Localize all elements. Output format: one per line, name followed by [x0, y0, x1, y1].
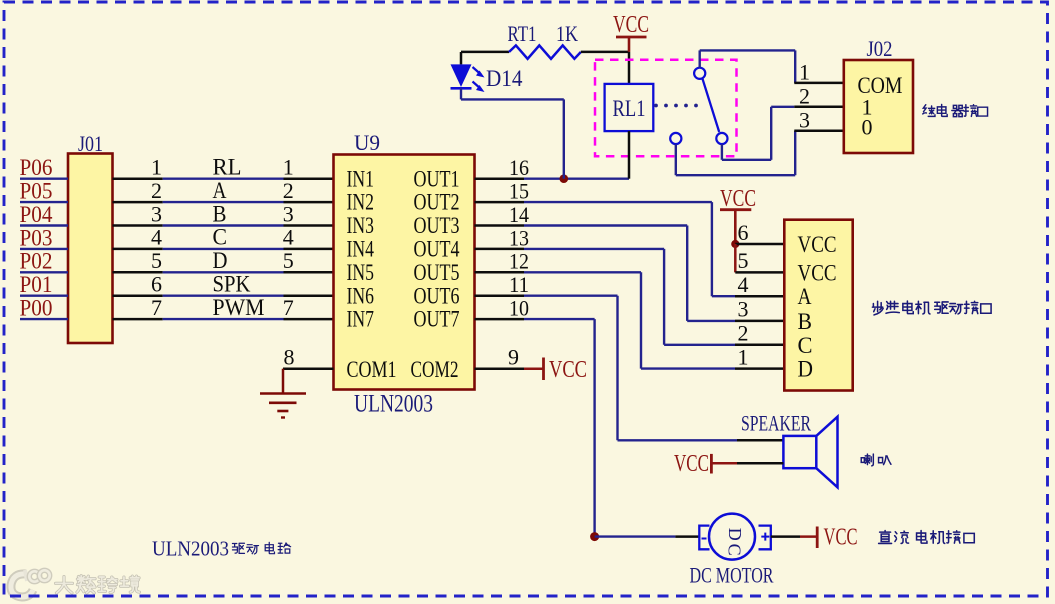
pin number 4 (stepper) [738, 272, 749, 297]
svg-text:RL1: RL1 [613, 96, 646, 121]
pin name IN3 [347, 213, 375, 238]
pin name OUT4 [414, 237, 460, 262]
pin name 0 [862, 115, 873, 140]
wire J01 pin 3 to U9 IN3 (net B) [113, 224, 334, 227]
pin number 10 [509, 296, 529, 321]
junction node stepper VCC [731, 240, 739, 248]
pin name OUT5 [414, 260, 460, 285]
svg-text:16: 16 [509, 155, 529, 180]
relay boundary box [595, 60, 737, 156]
svg-text:4: 4 [283, 225, 294, 250]
svg-text:0: 0 [862, 115, 873, 140]
svg-text:SPEAKER: SPEAKER [741, 411, 811, 436]
wire J01 pin 5 to U9 IN5 (net D) [113, 271, 334, 274]
svg-text:1K: 1K [556, 21, 578, 46]
wire P03 stub [20, 248, 68, 250]
pin number 7 (J01) [151, 295, 162, 320]
net label P03 [20, 225, 53, 250]
svg-text:7: 7 [283, 295, 294, 320]
svg-text:15: 15 [509, 179, 529, 204]
relay coil RL1 [605, 84, 654, 131]
pin number 4 (U9 input) [283, 225, 294, 250]
pin name VCC (stepper) [798, 232, 837, 257]
svg-text:IN7: IN7 [347, 307, 375, 332]
svg-text:RL: RL [213, 155, 242, 180]
pin name OUT3 [414, 213, 460, 238]
svg-text:10: 10 [509, 296, 529, 321]
svg-text:VCC: VCC [674, 451, 709, 477]
pin number 1 (J01) [151, 155, 162, 180]
svg-text:6: 6 [151, 272, 162, 297]
power VCC (stepper) [720, 186, 756, 244]
motor terminal - bracket [699, 526, 709, 550]
op-amp U9 (ULN2003 chip body) [334, 155, 475, 390]
net name RL [213, 155, 242, 180]
junction node motor wire [590, 532, 599, 541]
svg-text:P03: P03 [20, 225, 53, 250]
wire OUT3 to stepper pin 3 [475, 226, 785, 321]
svg-text:D: D [798, 357, 814, 382]
svg-text:OUT3: OUT3 [414, 213, 460, 238]
pin number 3 (J02) [799, 107, 810, 132]
pin name COM1 [347, 357, 397, 382]
pin number 9 [508, 345, 519, 370]
svg-text:1: 1 [283, 155, 294, 180]
svg-text:DC MOTOR: DC MOTOR [690, 563, 774, 588]
svg-text:VCC: VCC [824, 525, 858, 551]
pin name IN2 [347, 190, 375, 215]
power VCC (relay) [613, 12, 649, 52]
wire switch common to J02 pin 1 [700, 50, 844, 83]
junction node OUT1/D14 [560, 174, 569, 183]
svg-text:VCC: VCC [613, 12, 649, 38]
net name D [213, 248, 228, 273]
svg-text:2: 2 [151, 178, 162, 203]
svg-text:PWM: PWM [213, 295, 265, 320]
wire VCC to speaker [711, 462, 783, 465]
pin number 3 (stepper) [738, 297, 749, 322]
svg-text:IN1: IN1 [347, 166, 375, 191]
svg-text:VCC: VCC [798, 232, 837, 257]
wire P02 stub [20, 271, 68, 273]
svg-text:OUT5: OUT5 [414, 260, 460, 285]
svg-text:J02: J02 [867, 36, 893, 61]
wire RT1 to VCC node [581, 51, 629, 54]
net label P02 [20, 249, 53, 274]
switch contact common [694, 68, 705, 79]
wire motor + to VCC [771, 535, 817, 538]
pin name IN5 [347, 260, 375, 285]
net label P05 [20, 179, 53, 204]
svg-text:2: 2 [738, 321, 749, 346]
svg-text:P02: P02 [20, 249, 53, 274]
svg-text:OUT7: OUT7 [414, 307, 460, 332]
pin number 2 (J01) [151, 178, 162, 203]
connector stepper driver [784, 220, 852, 391]
wire VCC to stepper pin 6 [735, 243, 784, 246]
pin name 1 [862, 94, 873, 119]
svg-text:ULN2003: ULN2003 [354, 391, 433, 418]
svg-text:U9: U9 [354, 130, 380, 155]
ground [260, 369, 306, 418]
pin number 2 (U9 input) [283, 178, 294, 203]
svg-text:11: 11 [509, 272, 529, 297]
svg-text:13: 13 [509, 225, 529, 250]
pin number 14 [509, 202, 529, 227]
switch contact NO [716, 133, 727, 144]
net label P06 [20, 155, 53, 180]
svg-text:OUT6: OUT6 [414, 283, 460, 308]
wire OUT2 to stepper pin 4 [475, 202, 785, 296]
svg-text:D: D [213, 248, 228, 273]
pin number 3 (U9 input) [283, 201, 294, 226]
svg-text:B: B [798, 309, 813, 334]
wire OUT6 to speaker [475, 296, 784, 441]
net label P04 [20, 202, 53, 227]
svg-text:5: 5 [283, 248, 294, 273]
pin name COM [858, 73, 903, 98]
label DC motor interface (Chinese) [879, 530, 975, 543]
svg-text:7: 7 [151, 295, 162, 320]
wire D14 anode to RT1 [461, 51, 509, 54]
pin number 5 (U9 input) [283, 248, 294, 273]
wire switch NC to J02 pin 3 [676, 131, 844, 176]
pin name COM2 [411, 357, 459, 382]
pin name B (stepper) [798, 309, 813, 334]
speaker symbol [783, 417, 837, 488]
svg-text:5: 5 [738, 248, 749, 273]
pin name C (stepper) [798, 333, 813, 358]
net name SPK [213, 272, 251, 297]
wire J01 pin 6 to U9 IN6 (net SPK) [113, 294, 334, 297]
svg-text:3: 3 [738, 297, 749, 322]
pin number 5 (stepper) [738, 248, 749, 273]
pin number 8 [284, 345, 295, 370]
svg-text:D: D [725, 528, 745, 541]
wire P05 stub [20, 201, 68, 203]
pin name A (stepper) [798, 284, 812, 309]
svg-text:4: 4 [151, 225, 162, 250]
label SPEAKER [741, 411, 811, 436]
svg-text:RT1: RT1 [508, 21, 537, 46]
svg-text:COM1: COM1 [347, 357, 397, 382]
svg-text:P05: P05 [20, 179, 53, 204]
designator RT1 [508, 21, 537, 46]
svg-text:P00: P00 [20, 296, 53, 321]
pin number 15 [509, 179, 529, 204]
svg-text:3: 3 [283, 201, 294, 226]
wire OUT5 to stepper pin 1 [475, 272, 785, 368]
svg-text:A: A [213, 178, 227, 203]
pin name OUT1 [414, 166, 460, 191]
svg-text:14: 14 [509, 202, 529, 227]
svg-text:OUT1: OUT1 [414, 166, 460, 191]
coupling dotted line [654, 104, 698, 108]
pin number 7 (U9 input) [283, 295, 294, 320]
label horn (Chinese) [861, 454, 891, 466]
svg-text:IN6: IN6 [347, 283, 375, 308]
switch blade [703, 79, 720, 132]
connector J01 [68, 131, 113, 343]
wire OUT1 to relay coil [475, 177, 630, 180]
svg-text:P04: P04 [20, 202, 53, 227]
pin name IN1 [347, 166, 375, 191]
pin number 1 (J02) [799, 60, 810, 85]
pin number 6 (stepper) [738, 220, 749, 245]
net name PWM [213, 295, 265, 320]
svg-text:3: 3 [151, 201, 162, 226]
svg-text:IN3: IN3 [347, 213, 375, 238]
svg-text:1: 1 [799, 60, 810, 85]
svg-text:3: 3 [799, 107, 810, 132]
svg-text:J01: J01 [78, 131, 103, 156]
label relay interface (Chinese) [923, 104, 988, 116]
wire OUT7 to DC motor [475, 319, 595, 536]
pin name IN7 [347, 307, 375, 332]
svg-text:12: 12 [509, 249, 529, 274]
pin name OUT7 [414, 307, 460, 332]
wire P00 stub [20, 318, 68, 320]
label DC MOTOR [690, 563, 774, 588]
pin name OUT2 [414, 190, 460, 215]
pin number 2 (J02) [799, 83, 810, 108]
pin number 1 (stepper) [738, 344, 749, 369]
svg-text:IN5: IN5 [347, 260, 375, 285]
wire COM1 pin 8 [283, 367, 334, 370]
wire VCC node to relay coil [628, 52, 631, 84]
svg-text:VCC: VCC [549, 357, 587, 383]
svg-text:9: 9 [508, 345, 519, 370]
wire D14 cathode to OUT1 node [461, 88, 564, 178]
pin name IN4 [347, 237, 375, 262]
pin number 11 [509, 272, 529, 297]
pin name D (stepper) [798, 357, 814, 382]
svg-text:D14: D14 [486, 66, 523, 91]
svg-text:VCC: VCC [720, 186, 756, 212]
pin name IN6 [347, 283, 375, 308]
wire J01 pin 2 to U9 IN2 (net A) [113, 201, 334, 204]
wire node to motor - terminal [595, 535, 700, 537]
value 1K [556, 21, 578, 46]
svg-text:IN2: IN2 [347, 190, 375, 215]
pin number 5 (J01) [151, 248, 162, 273]
svg-text:VCC: VCC [798, 260, 837, 285]
net name B [213, 201, 227, 226]
svg-text:8: 8 [284, 345, 295, 370]
part designator U9 [354, 130, 380, 155]
svg-text:1: 1 [151, 155, 162, 180]
wire P04 stub [20, 224, 68, 226]
pin number 16 [509, 155, 529, 180]
svg-text:B: B [213, 201, 227, 226]
power VCC (speaker) [674, 451, 711, 477]
designator D14 [486, 66, 523, 91]
svg-text:ULN2003: ULN2003 [152, 537, 229, 561]
svg-text:C: C [213, 225, 228, 250]
pin name OUT6 [414, 283, 460, 308]
wire J01 pin 4 to U9 IN4 (net C) [113, 248, 334, 251]
designator J02 [867, 36, 893, 61]
pin name VCC (stepper) [798, 260, 837, 285]
net label P01 [20, 272, 53, 297]
wire relay coil to OUT1 [628, 131, 631, 179]
wire COM2 pin 9 [475, 367, 544, 370]
svg-text:6: 6 [738, 220, 749, 245]
svg-text:P01: P01 [20, 272, 53, 297]
designator RL1 [613, 96, 646, 121]
pin number 12 [509, 249, 529, 274]
title ULN2003 drive circuit [152, 537, 291, 561]
wire J01 pin 1 to U9 IN1 (net RL) [113, 177, 334, 180]
watermark logo [11, 570, 140, 597]
pin number 6 (J01) [151, 272, 162, 297]
connector J02 [844, 60, 913, 153]
svg-text:COM2: COM2 [411, 357, 459, 382]
net name C [213, 225, 228, 250]
DC motor M1 [709, 514, 755, 560]
svg-text:2: 2 [799, 83, 810, 108]
LED D14 [451, 52, 485, 92]
wire VCC to stepper pin 5 [735, 244, 784, 272]
motor terminal + bracket [759, 526, 771, 550]
resistor RT1 [509, 45, 581, 58]
wire OUT4 to stepper pin 2 [475, 249, 785, 345]
part type label ULN2003 [354, 391, 433, 418]
svg-text:C: C [798, 333, 813, 358]
pin number 13 [509, 225, 529, 250]
switch contact NC [670, 133, 681, 144]
label stepper motor drive interface (Chinese) [872, 301, 991, 315]
net label P00 [20, 296, 53, 321]
svg-text:P06: P06 [20, 155, 53, 180]
svg-text:C: C [725, 544, 745, 556]
power VCC (COM2) [544, 357, 588, 383]
pin number 4 (J01) [151, 225, 162, 250]
pin number 1 (U9 input) [283, 155, 294, 180]
svg-text:5: 5 [151, 248, 162, 273]
pin number 3 (J01) [151, 201, 162, 226]
wire P01 stub [20, 295, 68, 297]
svg-text:A: A [798, 284, 812, 309]
wire P06 stub [20, 177, 68, 179]
svg-text:1: 1 [738, 344, 749, 369]
svg-text:2: 2 [283, 178, 294, 203]
svg-text:4: 4 [738, 272, 749, 297]
svg-text:OUT4: OUT4 [414, 237, 460, 262]
pin number 2 (stepper) [738, 321, 749, 346]
wire switch NO to J02 pin 2 [722, 107, 844, 160]
svg-text:OUT2: OUT2 [414, 190, 460, 215]
net name A [213, 178, 227, 203]
svg-text:SPK: SPK [213, 272, 251, 297]
wire J01 pin 7 to U9 IN7 (net PWM) [113, 318, 334, 321]
svg-text:IN4: IN4 [347, 237, 375, 262]
power VCC (DC motor) [817, 525, 857, 551]
